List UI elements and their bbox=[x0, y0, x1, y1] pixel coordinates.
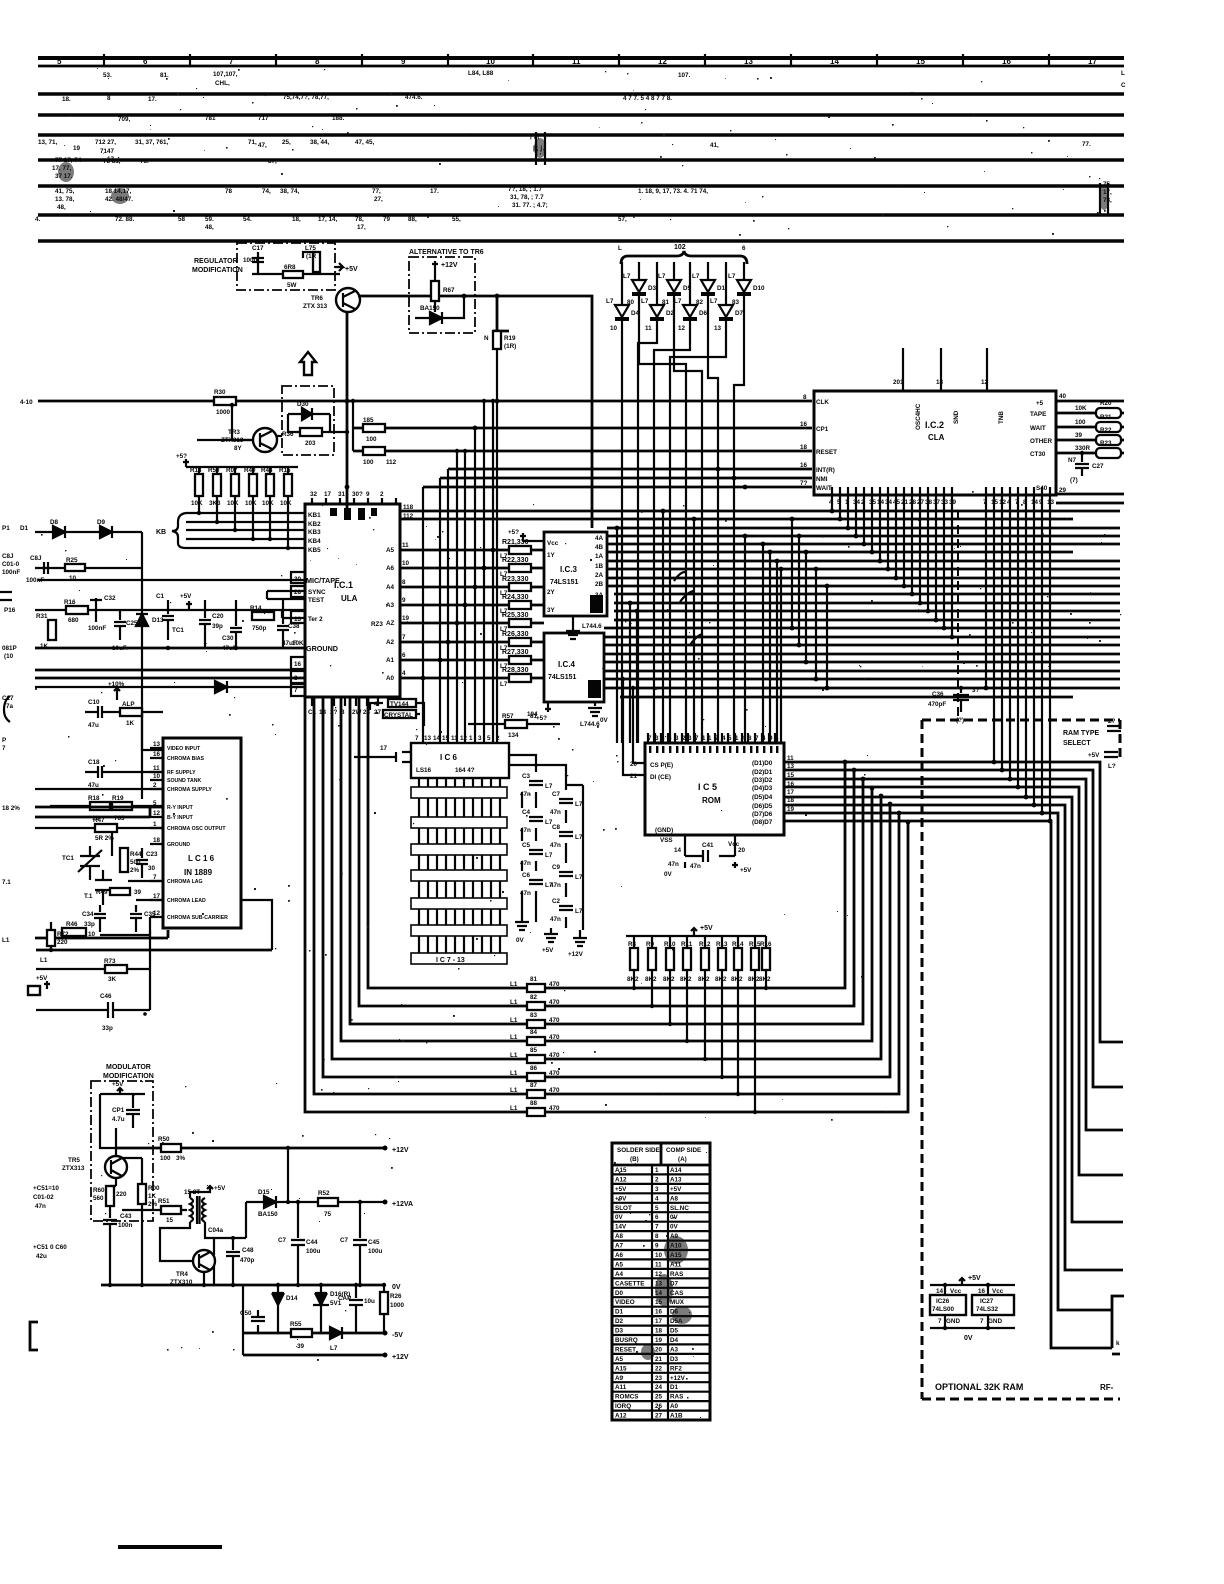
svg-text:L1: L1 bbox=[510, 1052, 518, 1059]
bus line net 2 bbox=[38, 113, 1124, 117]
svg-text:N: N bbox=[484, 335, 489, 342]
diode D15 bbox=[258, 1196, 288, 1208]
svg-text:R25: R25 bbox=[66, 557, 78, 564]
svg-text:+5V: +5V bbox=[345, 266, 358, 273]
diode D5 bbox=[673, 262, 675, 280]
svg-text:IC27: IC27 bbox=[980, 1298, 994, 1305]
wire sub carrier bbox=[100, 917, 150, 935]
svg-text:R14: R14 bbox=[190, 467, 202, 474]
svg-text:C04a: C04a bbox=[208, 1227, 224, 1234]
svg-text:TV144: TV144 bbox=[390, 701, 409, 708]
KB junction dots bbox=[197, 511, 201, 515]
+5V to IC3 bbox=[520, 533, 544, 541]
wire branch down from +10 line bbox=[232, 405, 253, 440]
svg-text:IC26: IC26 bbox=[936, 1298, 950, 1305]
wire R48 leads bbox=[765, 936, 767, 988]
svg-text:14: 14 bbox=[674, 847, 682, 854]
wire feed 100R lines bbox=[352, 401, 354, 451]
resistor pack IC8 bbox=[411, 817, 507, 828]
svg-text:R16: R16 bbox=[64, 599, 76, 606]
+5V pullup rail bbox=[626, 935, 766, 937]
svg-text:1000: 1000 bbox=[216, 409, 231, 416]
+12V terminal bbox=[383, 1146, 388, 1151]
transistor TR5 bbox=[105, 1156, 127, 1178]
wire R40 leads bbox=[252, 467, 254, 540]
IC2 bottom verticals left bbox=[832, 495, 952, 637]
wire pin13 stub bbox=[282, 610, 305, 618]
svg-text:81: 81 bbox=[530, 713, 538, 720]
svg-text:10K: 10K bbox=[227, 500, 239, 507]
svg-text:11: 11 bbox=[645, 325, 652, 332]
svg-text:+12V: +12V bbox=[568, 951, 584, 958]
svg-text:C17: C17 bbox=[252, 245, 264, 252]
transistor TR4 bbox=[193, 1250, 215, 1272]
resistor R36 bbox=[300, 428, 322, 436]
svg-text:100: 100 bbox=[363, 459, 374, 466]
capacitor C23 bbox=[136, 848, 148, 878]
svg-text:2Y: 2Y bbox=[547, 589, 556, 596]
IC5 top pin stubs bbox=[648, 733, 775, 743]
bundle junction dots bbox=[455, 449, 459, 453]
svg-text:R31: R31 bbox=[36, 613, 48, 620]
svg-text:R52: R52 bbox=[318, 1190, 330, 1197]
resistor R30 bbox=[214, 397, 236, 405]
cap chain feed wires bbox=[509, 755, 583, 930]
left IC1 icon bbox=[0, 592, 12, 600]
resistor R25 bbox=[65, 564, 85, 571]
svg-text:C44: C44 bbox=[306, 1239, 318, 1246]
svg-text:15: 15 bbox=[166, 1217, 174, 1224]
capacitor C38 bbox=[277, 600, 289, 648]
svg-text:L7: L7 bbox=[606, 298, 614, 305]
svg-text:+5V: +5V bbox=[542, 947, 554, 954]
svg-text:I.C.4: I.C.4 bbox=[558, 660, 575, 669]
capacitor C7 47n bbox=[559, 799, 573, 803]
cpu IC1 body bbox=[305, 504, 400, 697]
wire data D4 bbox=[784, 797, 1123, 1222]
resistor R31 bbox=[48, 620, 56, 640]
svg-text:0V: 0V bbox=[664, 871, 673, 878]
crystal box 1 bbox=[388, 699, 416, 707]
wire IC2 pin CP1 junction bbox=[473, 426, 478, 431]
svg-text:6: 6 bbox=[742, 245, 746, 252]
svg-text:39: 39 bbox=[1075, 432, 1083, 439]
resistor pack IC7 bbox=[411, 787, 507, 798]
diode BA150 bbox=[415, 312, 458, 324]
crossover jump 3 bbox=[680, 591, 694, 602]
wire alt box diode to rail bbox=[435, 296, 464, 318]
svg-text:10K: 10K bbox=[191, 500, 203, 507]
svg-text:134: 134 bbox=[508, 732, 519, 739]
svg-text:470: 470 bbox=[549, 1087, 560, 1094]
IC2 bottom verticals right bbox=[986, 495, 1050, 821]
svg-text:+5V: +5V bbox=[180, 593, 192, 600]
svg-text:3Y: 3Y bbox=[547, 607, 556, 614]
ground symbol 0V bbox=[515, 905, 529, 930]
svg-text:7: 7 bbox=[938, 1318, 942, 1325]
wire R43 leads bbox=[686, 936, 688, 1041]
svg-text:D10: D10 bbox=[753, 285, 765, 292]
svg-text:I C 5: I C 5 bbox=[698, 782, 717, 792]
svg-text:+5V: +5V bbox=[112, 1081, 124, 1088]
capacitor C32 bbox=[90, 598, 102, 622]
svg-text:87: 87 bbox=[530, 1082, 538, 1089]
IC14 pin stubs bbox=[150, 748, 163, 917]
capacitor C43 bbox=[35, 562, 142, 574]
svg-text:+10%: +10% bbox=[108, 681, 125, 688]
bus line net 6 bbox=[38, 213, 1124, 217]
resistor R44 bbox=[266, 474, 274, 496]
wire +12VA line bbox=[288, 1201, 385, 1203]
svg-text:R57: R57 bbox=[502, 713, 514, 720]
svg-text:3%: 3% bbox=[176, 1155, 186, 1162]
svg-text:R26: R26 bbox=[390, 1293, 402, 1300]
svg-text:L7: L7 bbox=[545, 783, 553, 790]
resistor pack IC10 bbox=[411, 870, 507, 881]
resistor R44 bbox=[120, 848, 128, 872]
wire R44 leads bbox=[704, 936, 706, 1059]
wire test stubs bbox=[267, 591, 305, 599]
diode D1 bbox=[707, 262, 709, 280]
wire data D7 bbox=[784, 821, 1112, 1348]
svg-text:112: 112 bbox=[386, 459, 397, 466]
transistor TR6 bbox=[336, 288, 360, 312]
svg-text:R22: R22 bbox=[1100, 427, 1112, 434]
svg-text:R24,330: R24,330 bbox=[502, 594, 529, 601]
wire data row 8 bbox=[305, 697, 908, 1112]
wire aux lines bbox=[35, 670, 305, 678]
left margin bracket2 bbox=[4, 696, 10, 722]
wire R45 leads bbox=[721, 936, 723, 1077]
resistor RD3 470 bbox=[527, 1020, 545, 1028]
svg-text:C8J: C8J bbox=[30, 555, 42, 562]
modulator mod box bbox=[91, 1081, 153, 1221]
resistor RD1 470 bbox=[527, 984, 545, 992]
svg-text:L744.6: L744.6 bbox=[582, 623, 602, 630]
0V rail IC26 bbox=[930, 1327, 1015, 1329]
wire bottom rail bbox=[36, 949, 272, 952]
svg-text:81: 81 bbox=[530, 976, 538, 983]
svg-text:VSS: VSS bbox=[660, 837, 673, 844]
svg-text:N7: N7 bbox=[1068, 457, 1077, 464]
svg-text:1Y: 1Y bbox=[547, 552, 556, 559]
svg-text:5W: 5W bbox=[287, 282, 297, 289]
resistor R55 bbox=[291, 1329, 312, 1337]
capacitor C8 47n bbox=[559, 832, 573, 836]
svg-text:+5?: +5? bbox=[508, 529, 519, 536]
svg-text:33p: 33p bbox=[102, 1025, 113, 1032]
wire R50 leads bbox=[216, 467, 218, 522]
svg-text:88: 88 bbox=[530, 1100, 538, 1107]
wire video vertical bbox=[141, 532, 143, 799]
svg-text:WAIT: WAIT bbox=[1030, 425, 1046, 432]
svg-text:47n: 47n bbox=[690, 863, 701, 870]
svg-text:L7: L7 bbox=[575, 908, 583, 915]
resistor R15 bbox=[284, 474, 292, 496]
wire +10 line bbox=[38, 400, 812, 403]
resistor R50 bbox=[213, 474, 221, 496]
svg-text:L7: L7 bbox=[641, 298, 649, 305]
wire R41 leads bbox=[651, 936, 653, 1006]
svg-text:10: 10 bbox=[88, 931, 96, 938]
resistor RD7 470 bbox=[527, 1090, 545, 1098]
diode D4 bbox=[621, 262, 623, 305]
capacitor C35 bbox=[130, 905, 142, 932]
svg-text:OPTIONAL 32K RAM: OPTIONAL 32K RAM bbox=[935, 1382, 1023, 1392]
svg-text:L7: L7 bbox=[500, 681, 508, 688]
svg-text:R67: R67 bbox=[443, 287, 455, 294]
svg-text:RZ3: RZ3 bbox=[371, 621, 383, 628]
-5V rail bbox=[243, 1332, 385, 1335]
svg-text:LS16: LS16 bbox=[416, 767, 432, 774]
svg-text:R60: R60 bbox=[93, 1187, 105, 1194]
svg-text:R23: R23 bbox=[1100, 440, 1112, 447]
IC1 bottom pin ticks bbox=[312, 697, 389, 706]
svg-text:C46: C46 bbox=[100, 993, 112, 1000]
svg-text:4-10: 4-10 bbox=[20, 399, 33, 406]
resistor R48 8K2 bbox=[762, 948, 770, 970]
capacitor C45 bbox=[353, 1202, 367, 1285]
svg-text:R20: R20 bbox=[1100, 400, 1112, 407]
wire data D1 bbox=[784, 770, 1123, 1087]
bus line net 1 bbox=[38, 92, 1124, 96]
capacitor C43b bbox=[103, 1206, 117, 1285]
svg-text:L7: L7 bbox=[710, 298, 718, 305]
svg-text:100: 100 bbox=[1075, 419, 1086, 426]
capacitor C50 bbox=[243, 1285, 265, 1355]
wire +5V rail to alt box bbox=[358, 296, 592, 528]
IC4 gnd stub bbox=[588, 702, 602, 716]
diode D17 bbox=[330, 1327, 342, 1339]
svg-text:C30: C30 bbox=[222, 635, 234, 642]
capacitor TC1 bbox=[162, 600, 174, 640]
svg-text:L7: L7 bbox=[728, 273, 736, 280]
capacitor CP1 bbox=[126, 1094, 140, 1128]
svg-text:10K: 10K bbox=[245, 500, 257, 507]
resistor R46 8K2 bbox=[734, 948, 742, 970]
resistor R24 330 bbox=[400, 604, 544, 607]
resistor pack IC11 bbox=[411, 898, 507, 909]
trimmer TC1 bbox=[78, 846, 102, 880]
inductor L7 bbox=[313, 252, 320, 272]
svg-text:12: 12 bbox=[678, 325, 686, 332]
resistor R12 100 bbox=[353, 450, 812, 453]
IC14 body bbox=[163, 738, 241, 928]
svg-text:+5V: +5V bbox=[968, 1275, 981, 1282]
svg-text:D1: D1 bbox=[717, 285, 726, 292]
svg-text:R21: R21 bbox=[1100, 414, 1112, 421]
scan smudges bbox=[58, 138, 1109, 1360]
svg-text:CT30: CT30 bbox=[1030, 451, 1046, 458]
svg-text:+5?: +5? bbox=[176, 453, 187, 460]
svg-text:CP1: CP1 bbox=[112, 1107, 125, 1114]
jumper 1 bbox=[1107, 726, 1121, 731]
resistor R14 bbox=[195, 474, 203, 496]
svg-text:KB: KB bbox=[156, 529, 166, 536]
wire R40 leads bbox=[633, 936, 635, 988]
svg-text:C5: C5 bbox=[522, 842, 531, 849]
svg-text:713141511121352: 713141511121352 bbox=[415, 735, 500, 742]
svg-text:750p: 750p bbox=[252, 625, 267, 632]
address junction dots bbox=[421, 676, 426, 681]
crossover jump 1 bbox=[674, 572, 685, 581]
wire ry input bbox=[35, 806, 163, 809]
svg-text:C20: C20 bbox=[212, 613, 224, 620]
rom address verticals bbox=[617, 511, 781, 743]
svg-text:47n: 47n bbox=[550, 809, 561, 816]
table row lines bbox=[612, 1174, 710, 1410]
svg-text:C1: C1 bbox=[156, 593, 165, 600]
resistor R21 100 bbox=[1056, 426, 1124, 429]
svg-text:R50: R50 bbox=[158, 1136, 170, 1143]
resistor R46 bbox=[62, 928, 86, 936]
resistor R21 330 bbox=[400, 549, 544, 552]
capacitor C10 bbox=[85, 706, 120, 718]
capacitor C44 bbox=[291, 1202, 305, 1285]
svg-text:82: 82 bbox=[530, 994, 538, 1001]
offpage bracket bbox=[1112, 1296, 1124, 1354]
svg-text:C36: C36 bbox=[932, 691, 944, 698]
svg-text:L7: L7 bbox=[575, 874, 583, 881]
svg-text:D30: D30 bbox=[297, 401, 309, 408]
svg-text:R9: R9 bbox=[646, 941, 655, 948]
svg-text:C18: C18 bbox=[88, 759, 100, 766]
svg-text:C43: C43 bbox=[120, 1213, 132, 1220]
resistor R60 bbox=[106, 1186, 114, 1206]
svg-text:TC1: TC1 bbox=[62, 855, 74, 862]
wires mod box 2 bbox=[288, 414, 347, 432]
svg-text:L7: L7 bbox=[575, 834, 583, 841]
resistor R26 bbox=[380, 1292, 388, 1314]
svg-text:100u: 100u bbox=[243, 257, 258, 264]
diode D7 bbox=[725, 262, 727, 305]
diode D13 bbox=[136, 614, 148, 626]
svg-text:+5V: +5V bbox=[214, 1185, 226, 1192]
capacitor C3 47n bbox=[529, 781, 543, 785]
op IC2 body bbox=[814, 391, 1056, 495]
svg-text:R40: R40 bbox=[244, 467, 256, 474]
resistor R17 bbox=[120, 708, 142, 716]
svg-text:Vcc: Vcc bbox=[992, 1288, 1004, 1295]
IC3 gnd block bbox=[590, 595, 603, 613]
wire IC6 verticals bbox=[419, 743, 500, 964]
IC1 inner top marks bbox=[330, 508, 337, 516]
svg-text:100u: 100u bbox=[306, 1248, 321, 1255]
resistor R22 39 bbox=[1056, 439, 1124, 442]
svg-text:L1: L1 bbox=[510, 1087, 518, 1094]
junction hatches bbox=[536, 132, 1108, 215]
resistor R49 bbox=[110, 888, 130, 895]
svg-text:C41: C41 bbox=[702, 842, 714, 849]
svg-text:ALP: ALP bbox=[122, 701, 135, 708]
svg-text:100n: 100n bbox=[118, 1222, 133, 1229]
wire mixer bbox=[246, 1202, 258, 1238]
svg-text:R00: R00 bbox=[148, 1185, 160, 1192]
wire R44 leads bbox=[269, 467, 271, 540]
svg-text:(1R: (1R bbox=[306, 253, 317, 260]
scan speckle bbox=[35, 68, 1121, 1418]
wire IC2 pin NMI bbox=[448, 468, 812, 471]
capacitor C34 bbox=[94, 905, 106, 932]
+12V feed bbox=[432, 261, 438, 281]
svg-text:10u: 10u bbox=[364, 1298, 375, 1305]
svg-text:ULA: ULA bbox=[341, 594, 358, 603]
resistor R43 8K2 bbox=[683, 948, 691, 970]
svg-text:470: 470 bbox=[549, 981, 560, 988]
svg-text:CRYSTAL: CRYSTAL bbox=[384, 712, 413, 719]
gate IC26 bbox=[944, 1285, 946, 1328]
wire R14 leads bbox=[198, 467, 200, 513]
svg-text:39: 39 bbox=[134, 889, 142, 896]
svg-text:R14: R14 bbox=[250, 605, 262, 612]
svg-text:L1: L1 bbox=[510, 1070, 518, 1077]
corner hooks bbox=[617, 511, 780, 611]
diode D8 bbox=[35, 526, 142, 538]
resistor R72 bbox=[47, 930, 55, 946]
resistor R19 bbox=[493, 296, 509, 331]
IC6 side pins bbox=[354, 752, 411, 762]
svg-text:100nF: 100nF bbox=[88, 625, 106, 632]
resistor R22 330 bbox=[400, 567, 544, 570]
transistor TR3 bbox=[253, 428, 277, 452]
svg-text:470: 470 bbox=[549, 1017, 560, 1024]
svg-text:39: 39 bbox=[297, 1343, 305, 1350]
wire IC2 pin BUSRQ bbox=[345, 485, 350, 490]
svg-text:6R8: 6R8 bbox=[284, 264, 296, 271]
wire data row 7 bbox=[314, 697, 899, 1094]
0V rail bbox=[101, 1284, 385, 1287]
ground symbol +12V bbox=[573, 930, 587, 946]
capacitor C9 47n bbox=[559, 872, 573, 876]
svg-text:CS P(E): CS P(E) bbox=[650, 762, 673, 769]
capacitor C46 bbox=[36, 1002, 150, 1018]
svg-text:C48: C48 bbox=[242, 1247, 254, 1254]
svg-text:R73: R73 bbox=[104, 958, 116, 965]
wire ry by bbox=[35, 930, 168, 938]
keyboard brace KB bbox=[172, 513, 186, 548]
svg-text:100: 100 bbox=[366, 436, 377, 443]
resistor R73 bbox=[36, 968, 150, 970]
wire ground line bbox=[35, 647, 305, 650]
jumper 2 bbox=[1104, 752, 1118, 757]
wire R47 leads bbox=[754, 936, 756, 1112]
diode D3 bbox=[638, 262, 640, 280]
svg-text:L1: L1 bbox=[510, 1017, 518, 1024]
svg-text:TNB: TNB bbox=[998, 411, 1005, 424]
IC4 gnd block bbox=[588, 680, 601, 698]
diode D6 bbox=[689, 262, 691, 305]
svg-text:29: 29 bbox=[1059, 487, 1067, 494]
resistor RD6 470 bbox=[527, 1073, 545, 1081]
resistor pack IC13 bbox=[411, 953, 507, 964]
svg-text:L: L bbox=[618, 245, 622, 252]
resistor R44 8K2 bbox=[701, 948, 709, 970]
svg-text:L C 1 6: L C 1 6 bbox=[188, 854, 215, 863]
svg-text:-5V: -5V bbox=[392, 1332, 403, 1339]
alternative box bbox=[409, 257, 475, 333]
+5V pullup rail label bbox=[183, 459, 189, 467]
+5V rail mod bbox=[100, 1088, 145, 1094]
zener D16 bbox=[313, 1285, 329, 1333]
svg-text:L7: L7 bbox=[658, 273, 666, 280]
svg-text:0V: 0V bbox=[964, 1335, 973, 1342]
+5V arrow bbox=[186, 601, 192, 611]
wire diode staircase bundle bbox=[622, 294, 744, 743]
svg-text:Vcc: Vcc bbox=[950, 1288, 962, 1295]
svg-text:D8: D8 bbox=[50, 519, 59, 526]
diode D9 bbox=[100, 526, 112, 538]
capacitor C4 47n bbox=[529, 817, 543, 821]
